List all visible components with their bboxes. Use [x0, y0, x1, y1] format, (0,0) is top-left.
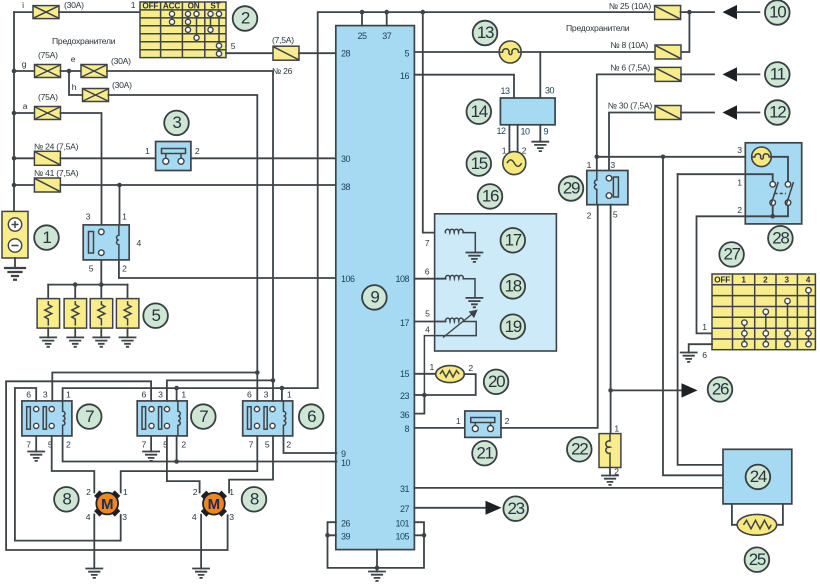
callout 20 — [484, 370, 509, 395]
svg-text:2: 2 — [181, 439, 186, 449]
svg-text:(75А): (75А) — [38, 50, 58, 60]
wire: unit28 pin 1 entry — [678, 174, 773, 181]
svg-text:2: 2 — [195, 146, 200, 156]
node e label — [71, 54, 76, 64]
wire: coil 22 pin 2 to ground — [609, 468, 611, 476]
wire: ignition pin 5 to fuse 26 — [226, 52, 273, 54]
svg-text:ST: ST — [210, 2, 220, 11]
label № 26 — [272, 66, 293, 76]
svg-text:9: 9 — [544, 127, 549, 137]
wire: resistor grounds stubs — [48, 328, 127, 337]
node h label — [72, 82, 77, 92]
wire: ECU pins 101/105 ground bracket right — [377, 522, 424, 568]
wire: unit14 pin 12 to generator — [508, 125, 510, 153]
callout 14 — [467, 99, 492, 124]
svg-text:OFF: OFF — [142, 2, 158, 11]
ground battery — [5, 268, 25, 280]
svg-text:(30А): (30А) — [112, 80, 132, 90]
value label (30A) fuse e — [111, 56, 131, 66]
svg-text:21: 21 — [476, 443, 493, 462]
svg-text:10: 10 — [521, 127, 531, 137]
svg-text:1: 1 — [123, 487, 128, 497]
relay 7 middle — [137, 401, 187, 436]
generator pin labels — [502, 146, 527, 156]
svg-text:1: 1 — [181, 389, 186, 399]
svg-text:3: 3 — [229, 512, 234, 522]
fuse № 25 (10A) — [655, 6, 681, 20]
junction bus / fuse 41 — [12, 183, 17, 188]
wire: ECU pin 27 arrow stem — [414, 507, 486, 509]
svg-text:30: 30 — [341, 154, 351, 164]
wire: fuse 30 right to arrow 12 — [681, 112, 714, 114]
wire: fuse e output to vertical drop x273 — [107, 71, 273, 380]
wire: lamp feed to unit 28 pin 3 — [597, 156, 746, 158]
svg-text:28: 28 — [341, 49, 351, 59]
svg-text:4: 4 — [137, 238, 142, 248]
junction relay7M pin 1 — [174, 386, 179, 391]
battery 1 — [2, 211, 28, 258]
callout 17 — [501, 228, 526, 253]
svg-text:5: 5 — [231, 41, 236, 51]
junction fuse 25 / fuse 8 riser — [687, 10, 692, 15]
svg-text:Предохранители: Предохранители — [52, 36, 116, 46]
svg-text:№ 26: № 26 — [272, 66, 293, 76]
wire: fuse i to ignition switch pin 1 — [59, 11, 140, 13]
svg-text:2: 2 — [505, 416, 510, 426]
svg-text:1: 1 — [737, 178, 742, 188]
svg-text:2: 2 — [193, 487, 198, 497]
junction fuse e drop / relay6 pin3 — [271, 378, 276, 383]
wire: fuse 24 to switch 3 pin 1 — [60, 157, 155, 159]
value label (7,5A) fuse 26 — [272, 35, 294, 45]
svg-text:3: 3 — [122, 512, 127, 522]
unit 28 — [745, 143, 801, 224]
ground relay 7 left — [28, 452, 44, 461]
wire: relay 29 pin 5 down to coil 22 — [610, 205, 612, 434]
svg-text:5: 5 — [404, 49, 409, 59]
svg-text:7: 7 — [142, 439, 147, 449]
svg-text:18: 18 — [505, 277, 522, 296]
svg-text:16: 16 — [400, 71, 410, 81]
svg-text:10: 10 — [769, 3, 786, 22]
wire: fuse g to node e — [61, 70, 82, 72]
wire: battery positive bus vertical — [13, 12, 15, 211]
resistor 20 — [436, 366, 465, 383]
wire: node e down to fuse h — [69, 71, 83, 95]
svg-text:36: 36 — [400, 410, 410, 420]
junction node e — [67, 69, 72, 74]
svg-text:12: 12 — [496, 126, 506, 136]
callout 27 — [719, 242, 744, 267]
wire: motor2 pin3 bracket to relay7M pin 6 — [6, 381, 228, 550]
junction bus / fuse 24 — [12, 156, 17, 161]
sensor coil 18 — [446, 275, 475, 298]
fuse № 6 (7,5A) — [655, 67, 681, 81]
label № 41 (7,5А) — [34, 168, 79, 178]
pin 5 label ignition switch — [231, 41, 236, 51]
svg-text:2: 2 — [587, 211, 592, 221]
switch 21 pin labels — [456, 416, 510, 426]
svg-text:№ 41 (7,5А): № 41 (7,5А) — [34, 168, 79, 178]
svg-text:g: g — [22, 59, 27, 69]
svg-text:26: 26 — [712, 380, 729, 399]
control unit 14 — [500, 98, 555, 125]
arrow 10 — [723, 5, 760, 19]
svg-text:1: 1 — [502, 146, 507, 156]
sensor coil 19 variable — [424, 310, 477, 395]
svg-text:25: 25 — [357, 31, 367, 41]
motor 8 left — [94, 490, 120, 516]
svg-text:19: 19 — [505, 317, 522, 336]
svg-text:3: 3 — [86, 212, 91, 222]
label № 24 (7,5А) — [34, 142, 79, 152]
label № 25 (10А) — [609, 1, 651, 11]
unit 28 contacts — [770, 182, 794, 206]
svg-text:6: 6 — [425, 266, 430, 276]
callout 9 — [362, 285, 387, 310]
wire: bus drops to resistors — [48, 285, 127, 299]
svg-text:2: 2 — [468, 363, 473, 373]
svg-text:2: 2 — [241, 9, 250, 28]
svg-text:3: 3 — [785, 276, 790, 285]
svg-text:2: 2 — [86, 487, 91, 497]
sensor pin labels — [425, 238, 430, 334]
svg-text:12: 12 — [769, 103, 786, 122]
lamp 13 — [499, 41, 521, 63]
ground wiper table — [681, 353, 697, 362]
svg-text:3: 3 — [158, 389, 163, 399]
junction rail pin 37 — [384, 10, 389, 15]
ground sensor 18 — [466, 298, 482, 307]
svg-text:7: 7 — [26, 439, 31, 449]
wire: bus to fuse 24 — [14, 157, 34, 159]
callout 18 — [501, 274, 526, 299]
svg-text:№ 25 (10А): № 25 (10А) — [609, 1, 651, 11]
switch 3 — [156, 142, 191, 171]
label № 6 (7,5А) — [610, 63, 650, 73]
svg-text:3: 3 — [264, 389, 269, 399]
fuse i (30A) — [33, 6, 59, 19]
svg-text:3: 3 — [172, 113, 181, 132]
fuse № 41 (7,5A) — [34, 178, 60, 192]
svg-text:10: 10 — [341, 458, 351, 468]
coil 22 pin label 2 — [614, 467, 619, 477]
svg-text:1: 1 — [131, 0, 136, 10]
value label (75A) fuse a — [38, 92, 58, 102]
svg-text:38: 38 — [341, 182, 351, 192]
fuse № 8 (10A) — [655, 45, 681, 59]
junction unit28 pin2 — [770, 214, 775, 219]
svg-text:108: 108 — [395, 274, 409, 284]
wire: ECU pin 15 to resistor 20 — [414, 373, 435, 375]
coil 22 pin label 1 — [614, 424, 619, 434]
lamp in unit 28 — [752, 147, 772, 167]
wire: rail to ECU pin 37 — [386, 12, 388, 26]
svg-text:1: 1 — [614, 424, 619, 434]
svg-text:1: 1 — [430, 362, 435, 372]
svg-text:7: 7 — [249, 439, 254, 449]
svg-text:25: 25 — [749, 550, 766, 569]
svg-text:23: 23 — [400, 391, 410, 401]
wire: relay coils net pin 1 rail drop — [63, 388, 318, 401]
junction relay6 pin 1 — [280, 386, 285, 391]
callout 8 right — [242, 487, 267, 512]
junction pin 39 bracket — [325, 533, 330, 538]
svg-text:37: 37 — [382, 31, 392, 41]
svg-text:1: 1 — [741, 276, 746, 285]
svg-text:30: 30 — [545, 86, 555, 96]
resistor 5c — [90, 299, 113, 329]
svg-text:e: e — [71, 54, 76, 64]
wire: motor1 pin 4 to ground — [93, 515, 95, 569]
svg-text:17: 17 — [505, 231, 522, 250]
wire: fuse 41 to ECU pin 38 — [60, 184, 335, 186]
ground motor 2 — [193, 569, 209, 578]
svg-text:№ 24 (7,5А): № 24 (7,5А) — [34, 142, 79, 152]
wire: ECU pin 16 to unit14 pin 13 — [414, 75, 514, 98]
callout 16 — [478, 184, 503, 209]
wire: relay7L pin 3 to relay6 pin 6 — [52, 373, 257, 401]
svg-text:(75А): (75А) — [38, 92, 58, 102]
svg-text:3: 3 — [43, 389, 48, 399]
wire: fuse 26 to ECU pin 28 — [299, 52, 336, 54]
ignition switch table 2 — [140, 2, 226, 58]
relay 6 pin labels top — [247, 389, 292, 399]
motor 8 right pin labels — [192, 487, 234, 522]
callout 15 — [467, 151, 492, 176]
wire: bus to fuse 41 — [14, 184, 34, 186]
wire: relay7M pin 5 to motor2 pin 2 — [167, 436, 200, 493]
svg-text:ACC: ACC — [163, 2, 180, 11]
svg-text:8: 8 — [62, 490, 71, 509]
junction pin 105 bracket — [422, 533, 427, 538]
svg-text:9: 9 — [370, 288, 379, 307]
callout 7 left — [77, 404, 102, 429]
svg-text:20: 20 — [488, 372, 505, 391]
svg-text:31: 31 — [400, 484, 410, 494]
ground motor 1 — [86, 569, 102, 578]
svg-text:7: 7 — [425, 238, 430, 248]
callout 6 — [299, 404, 324, 429]
svg-text:OFF: OFF — [714, 276, 730, 285]
wire: unit 24 to heater left leg — [732, 504, 737, 525]
wire: relay7M coil pin 1 stub — [176, 388, 178, 401]
callout 3 — [164, 111, 189, 136]
svg-text:8: 8 — [404, 424, 409, 434]
svg-text:5: 5 — [265, 439, 270, 449]
wire: branch down to relay pin 1 — [119, 185, 121, 225]
wire: relay7M coil bottom to bus — [176, 436, 178, 462]
wire: battery negative to ground — [14, 258, 16, 268]
callout 2 — [233, 6, 258, 31]
svg-text:6: 6 — [702, 350, 707, 360]
wire: unit14 pin 10 to generator — [517, 125, 519, 153]
value label (75A) fuse g — [38, 50, 58, 60]
wire: relay7M pin 3 to relay6 pin 3 — [167, 380, 273, 401]
relay (battery main) — [83, 225, 129, 260]
resistor 20 pin labels — [430, 362, 474, 373]
wire: unit28 pin 2 to wiper table pin 1 — [697, 216, 746, 333]
wire: relay pin 2 to ECU pin 106 — [119, 260, 336, 278]
ground unit 14 — [532, 142, 548, 151]
wire: bus to fuse a — [14, 112, 35, 114]
svg-text:(30А): (30А) — [111, 56, 131, 66]
junction resistor bus 2 — [73, 282, 78, 287]
wire: contacts common to pin 2 — [745, 205, 788, 216]
wire: ECU pin 108 to sensor coil 18 — [414, 278, 445, 280]
wire: ECU pins 26/39 ground bracket left — [328, 522, 378, 568]
ECU pin labels top — [357, 31, 391, 41]
ground sensor 17 — [466, 253, 482, 262]
wire: rail down to sensor pin 7 row — [423, 12, 445, 233]
callout 11 — [765, 62, 790, 87]
svg-text:8: 8 — [250, 490, 259, 509]
motor 8 right — [201, 491, 227, 517]
relay 6 right — [243, 401, 293, 436]
wire: unit14 pin 9 to ground — [539, 125, 541, 142]
svg-text:7: 7 — [85, 407, 94, 426]
wire: fuse 6 right to arrow 11 — [681, 73, 714, 75]
svg-text:3: 3 — [610, 160, 615, 170]
junction pin 23 net — [422, 393, 427, 398]
ECU block 9 — [336, 26, 415, 550]
wire: relay7L pin 7 to ground — [35, 436, 37, 452]
junction ECU ground — [375, 566, 380, 571]
resistor 5b — [64, 299, 87, 329]
label № 8 (10А) — [610, 40, 648, 50]
svg-text:7: 7 — [199, 407, 208, 426]
svg-text:6: 6 — [26, 389, 31, 399]
fuse h (30A) — [83, 89, 109, 102]
wire: fuse a to relay pin 3 drop — [61, 113, 102, 225]
wire: ECU pin 31 to unit 24 — [414, 487, 723, 489]
relay 6 pin labels bottom — [249, 439, 292, 449]
svg-text:27: 27 — [400, 504, 410, 514]
wire: fuse h output to vertical drop x257 — [109, 95, 258, 373]
svg-text:№ 30 (7,5А): № 30 (7,5А) — [608, 101, 653, 111]
svg-text:16: 16 — [482, 187, 499, 206]
ECU pin labels right — [395, 49, 409, 542]
svg-text:2: 2 — [737, 205, 742, 215]
wire: wiper table pin 6 to ground — [689, 344, 712, 352]
fuse g (75A) — [35, 65, 61, 78]
node g label — [22, 59, 27, 69]
svg-text:105: 105 — [395, 532, 409, 542]
svg-text:№ 8 (10А): № 8 (10А) — [610, 40, 648, 50]
arrow 11 — [723, 67, 760, 81]
svg-text:2: 2 — [66, 439, 71, 449]
svg-text:6: 6 — [247, 389, 252, 399]
svg-text:15: 15 — [400, 369, 410, 379]
wire: ECU pin 23 stub — [414, 394, 424, 396]
switch 21 — [465, 411, 501, 437]
ground resistor 5b — [67, 337, 83, 346]
svg-text:ON: ON — [188, 2, 200, 11]
svg-text:23: 23 — [508, 499, 525, 518]
svg-text:1: 1 — [287, 389, 292, 399]
junction unit24 branch on lamp feed — [661, 155, 666, 160]
svg-text:5: 5 — [89, 264, 94, 274]
svg-text:1: 1 — [66, 389, 71, 399]
wire: +12V top rail — [318, 12, 655, 388]
svg-text:1: 1 — [42, 228, 51, 247]
AC generator 15 — [503, 152, 526, 175]
junction rail sensor feed — [421, 10, 426, 15]
junction battery bus / fuse a — [12, 111, 17, 116]
relay 7 left pin labels top — [26, 389, 71, 399]
wire: relay6 pin 7 to motor1 pin 1 — [121, 436, 258, 493]
pin 1 label ignition switch — [131, 0, 136, 10]
svg-text:3: 3 — [737, 145, 742, 155]
junction relay7M pin 2 on bus — [174, 459, 179, 464]
motor 8 left pin labels — [86, 487, 128, 522]
svg-text:29: 29 — [563, 179, 580, 198]
svg-text:(7,5А): (7,5А) — [272, 35, 294, 45]
resistor 5a — [37, 299, 60, 329]
svg-text:26: 26 — [341, 519, 351, 529]
callout 13 — [473, 21, 498, 46]
junction relay29 pin1 riser — [595, 155, 600, 160]
wire: ECU pin 36 link — [414, 395, 424, 414]
wire: unit28 pin 1 riser to unit 24 — [678, 174, 723, 465]
ground coil 22 — [602, 476, 618, 485]
svg-text:M: M — [101, 496, 114, 513]
wire: arrow 26 stem — [611, 389, 682, 391]
svg-text:1: 1 — [702, 322, 707, 332]
svg-text:M: M — [208, 496, 221, 513]
svg-text:15: 15 — [471, 154, 488, 173]
svg-text:№ 6 (7,5А): № 6 (7,5А) — [610, 63, 650, 73]
svg-text:6: 6 — [307, 407, 316, 426]
svg-text:5: 5 — [425, 309, 430, 319]
svg-text:2: 2 — [763, 276, 768, 285]
callout 10 — [765, 0, 790, 25]
wire: ECU bottom center to ground — [376, 550, 378, 572]
svg-text:2: 2 — [122, 264, 127, 274]
wire: rail to ECU pin 25 — [361, 12, 363, 26]
unit 28 pin labels — [737, 145, 742, 215]
wire: relay7L pin 5 to motor1 pin 2 — [52, 436, 95, 493]
coil unit 22 — [599, 434, 621, 468]
svg-text:11: 11 — [770, 65, 786, 84]
svg-text:6: 6 — [142, 389, 147, 399]
svg-text:1: 1 — [122, 212, 127, 222]
svg-text:1: 1 — [587, 160, 592, 170]
relay 29 pin labels — [587, 160, 618, 221]
wire: resistor 20 pin 2 to pin 23 net — [424, 374, 475, 395]
wire: motor1 pin3 bracket to relay7L pin 6 — [15, 388, 121, 541]
wire: ECU pin 17 to sensor coil 19 — [414, 321, 445, 323]
callout 8 left — [54, 487, 79, 512]
wiper table pin labels — [702, 322, 707, 360]
callout 7 middle — [191, 404, 216, 429]
fuse a (75A) — [35, 107, 61, 120]
wire: fuse 25 to arrow node — [681, 11, 714, 13]
svg-text:5: 5 — [152, 306, 161, 325]
callout 19 — [501, 314, 526, 339]
wire: switch 21 pin 2 to relay 29 pin 2 — [501, 205, 598, 428]
ground resistor 5a — [40, 337, 56, 346]
heater resistor 25 — [737, 514, 777, 535]
wire: fuse i feed — [14, 11, 33, 13]
relay 7 middle pin labels top — [142, 389, 187, 399]
wire: relay coil bottoms bus to ECU pin 10 — [63, 436, 337, 462]
svg-text:2: 2 — [286, 439, 291, 449]
svg-text:4: 4 — [192, 512, 197, 522]
wire: lamp feed branch down to unit 24 — [663, 157, 723, 476]
svg-text:106: 106 — [341, 274, 355, 284]
sensor coil 17 — [445, 229, 475, 252]
